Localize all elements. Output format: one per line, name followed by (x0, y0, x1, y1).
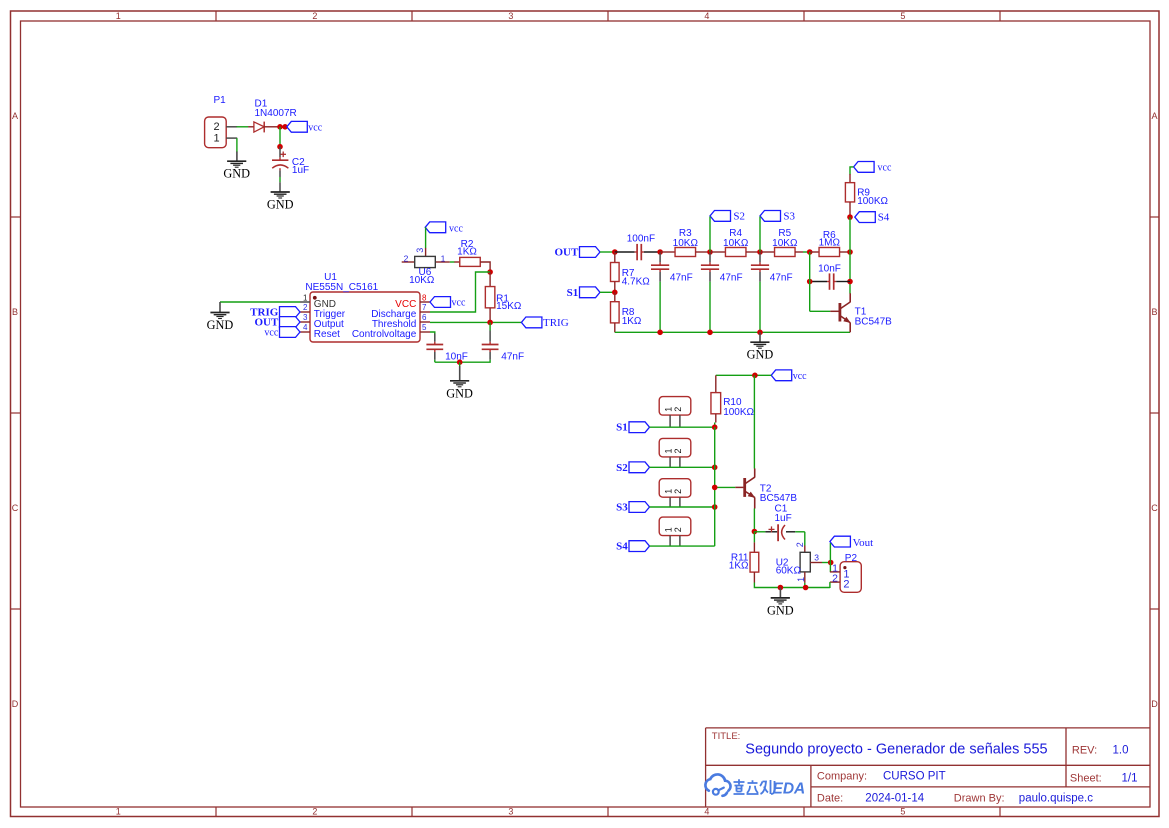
net flag S4 (855, 212, 890, 224)
svg-text:8: 8 (422, 293, 427, 302)
svg-text:4.7KΩ: 4.7KΩ (622, 277, 651, 288)
net flag S3 (760, 210, 796, 222)
svg-text:1: 1 (303, 293, 308, 302)
svg-text:10KΩ: 10KΩ (409, 275, 435, 286)
wire U1 pin1 to GND (220, 301, 300, 303)
svg-text:4: 4 (704, 807, 709, 817)
svg-text:vcc: vcc (793, 371, 807, 382)
capacitor C2 1uF polarized (272, 147, 309, 176)
svg-text:2: 2 (673, 407, 683, 412)
svg-text:B: B (1151, 307, 1157, 317)
diode D1 1N4007R (248, 99, 297, 133)
junction node R2/R1/Discharge (487, 269, 493, 275)
wire R11 top (753, 532, 755, 553)
wire S1 row (650, 426, 715, 428)
wire U2 pin1 to rail (804, 583, 806, 588)
net flag S1 at ladder (567, 287, 600, 299)
svg-text:S4: S4 (616, 541, 628, 553)
potentiometer U6 10K (402, 248, 450, 286)
resistor R9 100K (845, 174, 888, 217)
svg-text:3: 3 (303, 313, 308, 322)
resistor R11 1K (729, 552, 759, 582)
junction cap1 bottom (657, 330, 663, 336)
junction S3 row (712, 504, 718, 510)
svg-text:100nF: 100nF (627, 234, 655, 245)
junction node R5/R6 (807, 249, 813, 255)
capacitor 47nF third (751, 253, 793, 332)
switch SW1 (1-2) (659, 397, 691, 428)
wire S2 row (650, 466, 715, 468)
junction Vout node (828, 560, 834, 566)
svg-text:NE555N_C5161: NE555N_C5161 (305, 282, 378, 293)
svg-text:15KΩ: 15KΩ (496, 301, 522, 312)
svg-text:D: D (12, 699, 19, 709)
wire vcc rail lower (716, 374, 771, 376)
resistor R7 4.7K (611, 252, 651, 292)
svg-text:GND: GND (747, 348, 774, 362)
svg-text:10nF: 10nF (818, 263, 841, 274)
svg-text:A: A (12, 111, 18, 121)
wire C2 to GND (279, 170, 281, 192)
svg-text:1: 1 (663, 527, 673, 532)
svg-text:47nF: 47nF (770, 273, 793, 284)
junction node S1 (612, 290, 618, 296)
svg-text:CURSO PIT: CURSO PIT (883, 771, 946, 783)
capacitor 100nF (615, 234, 660, 261)
ground GND at P1 (223, 152, 250, 181)
resistor R6 1M (810, 230, 850, 257)
svg-text:vcc: vcc (264, 327, 278, 338)
svg-text:3: 3 (508, 11, 513, 21)
net flag S3 lower (616, 502, 649, 514)
svg-text:Reset: Reset (314, 329, 340, 340)
wire U6 pin1 to R2 (450, 261, 455, 263)
resistor R1 15K (485, 272, 522, 322)
svg-text:4: 4 (303, 323, 308, 332)
svg-text:B: B (12, 307, 18, 317)
wire node to P2 pin1 (829, 563, 831, 572)
svg-text:4: 4 (704, 11, 709, 21)
svg-text:10nF: 10nF (445, 351, 468, 362)
svg-text:S3: S3 (783, 210, 795, 222)
svg-text:GND: GND (223, 167, 250, 181)
wire S2 to node (709, 217, 711, 253)
svg-text:3: 3 (415, 248, 425, 253)
net flag TRIG at U1 pin2 (250, 307, 300, 319)
svg-text:1: 1 (116, 11, 121, 21)
connector P2 (830, 553, 861, 592)
svg-text:1: 1 (441, 253, 446, 263)
svg-text:paulo.quispe.c: paulo.quispe.c (1019, 793, 1093, 805)
svg-text:GND: GND (767, 603, 794, 617)
svg-text:Company:: Company: (817, 771, 867, 783)
wire C1 to U2 pin2 (804, 532, 806, 546)
junction node cap1 top (657, 249, 663, 255)
svg-text:P1: P1 (214, 95, 227, 106)
svg-text:Segundo proyecto - Generador d: Segundo proyecto - Generador de señales … (745, 742, 1047, 758)
wire OUT flag to node (600, 251, 615, 253)
svg-text:S1: S1 (616, 422, 628, 434)
wire S3 to node (759, 217, 761, 253)
svg-text:6: 6 (422, 313, 427, 322)
switch SW3 (1-2) (659, 479, 691, 507)
svg-text:vcc: vcc (449, 223, 463, 234)
power flag vcc lower (771, 370, 807, 382)
wire vcc flag to U6 pin3 (425, 227, 427, 248)
ground GND at ladder rail (747, 332, 774, 361)
svg-text:2: 2 (312, 807, 317, 817)
svg-text:2: 2 (404, 253, 409, 263)
wire S1 flag to node (600, 291, 615, 293)
svg-text:47nF: 47nF (501, 351, 524, 362)
junction cap2 bottom (707, 330, 713, 336)
svg-text:7: 7 (422, 303, 427, 312)
transistor T1 BC547B (840, 293, 892, 332)
capacitor 10nF at T1 (810, 263, 850, 290)
wire vcc flag to R9 (850, 167, 854, 175)
svg-text:Vout: Vout (853, 537, 874, 549)
power flag vcc at U1 pin8 (430, 297, 466, 309)
svg-text:1: 1 (663, 407, 673, 412)
svg-text:D: D (1151, 699, 1158, 709)
svg-text:1/1: 1/1 (1122, 773, 1138, 785)
op-amp U1 NE555N_C5161 (300, 272, 430, 342)
junction node TRIG/R1 (487, 320, 493, 326)
svg-text:1MΩ: 1MΩ (819, 238, 841, 249)
net flag Vout (830, 536, 873, 549)
svg-text:REV:: REV: (1072, 745, 1097, 757)
resistor R3 10K (660, 228, 710, 256)
ground GND under caps (446, 362, 473, 400)
capacitor 47nF first (651, 253, 693, 332)
svg-text:2: 2 (843, 579, 849, 591)
svg-text:2: 2 (673, 489, 683, 494)
svg-text:1KΩ: 1KΩ (729, 561, 749, 572)
svg-text:S1: S1 (567, 287, 579, 299)
svg-text:1KΩ: 1KΩ (457, 247, 477, 258)
svg-text:Date:: Date: (817, 793, 843, 805)
junction node R3/R4 (707, 249, 713, 255)
wire vcc node down to C2 (279, 127, 281, 147)
wire P1 pin2 to D1 anode (237, 126, 249, 128)
wire base row to T2 (715, 486, 736, 488)
wire R5/R6 node down to base (810, 252, 839, 311)
svg-text:2: 2 (312, 11, 317, 21)
wire Threshold pin6 to TRIG flag (430, 321, 521, 323)
svg-text:S3: S3 (616, 502, 628, 514)
svg-text:S2: S2 (616, 462, 628, 474)
connector P1 (205, 95, 238, 148)
wire P2 pin2 to rail (829, 582, 831, 588)
svg-text:P2: P2 (845, 553, 858, 564)
junction cap3 bottom GND (757, 330, 763, 336)
svg-text:vcc: vcc (878, 162, 892, 173)
wire R5 to node (803, 251, 810, 253)
junction S1 row (712, 424, 718, 430)
wire 10nF to ground rail (434, 352, 436, 360)
svg-text:2: 2 (673, 527, 683, 532)
net flag S4 lower (616, 541, 649, 553)
junction GND rail (778, 585, 784, 591)
junction base row (712, 485, 718, 491)
junction node OUT (612, 249, 618, 255)
ground GND left of U1 (207, 302, 234, 332)
capacitor 47nF under R1 (482, 342, 524, 363)
svg-text:C: C (12, 503, 19, 513)
svg-text:S2: S2 (733, 210, 745, 222)
ground rail wire of ladder (615, 331, 850, 333)
svg-text:5: 5 (900, 11, 905, 21)
capacitor 10nF under pin5 (426, 342, 467, 363)
junction at ground of caps (457, 359, 463, 365)
svg-text:47nF: 47nF (670, 273, 693, 284)
svg-text:vcc: vcc (308, 123, 322, 134)
svg-text:3: 3 (814, 553, 819, 563)
svg-text:GND: GND (207, 318, 234, 332)
svg-text:2: 2 (795, 542, 805, 547)
svg-text:1: 1 (116, 807, 121, 817)
power flag vcc at D1 (287, 121, 323, 133)
power flag vcc above R9 (854, 162, 892, 174)
resistor R4 10K (710, 228, 760, 256)
resistor R5 10K (760, 228, 803, 256)
logo JLCEDA (705, 774, 805, 797)
power flag vcc above U6 (425, 222, 463, 235)
net flag OUT at U1 pin3 (254, 317, 300, 329)
net flag TRIG right of R1 (521, 317, 568, 329)
svg-text:GND: GND (267, 198, 294, 212)
wire Vout flag down to node (829, 543, 831, 563)
resistor R10 100K (711, 375, 755, 427)
svg-text:1: 1 (663, 489, 673, 494)
junction U2 pin1 rail (803, 585, 809, 591)
wire T2 collector to vcc rail (753, 375, 755, 468)
transistor T2 BC547B (745, 469, 798, 532)
svg-text:Controlvoltage: Controlvoltage (352, 329, 417, 340)
svg-text:2: 2 (213, 121, 219, 133)
junction node R6/collector (847, 249, 853, 255)
net flag S2 (710, 210, 745, 222)
svg-text:S4: S4 (878, 212, 890, 224)
svg-text:10KΩ: 10KΩ (772, 238, 798, 249)
ground GND at C2 (271, 191, 290, 193)
svg-text:1uF: 1uF (775, 513, 792, 524)
svg-text:5: 5 (422, 323, 427, 332)
wire 47nF to ground rail (489, 352, 491, 360)
wire switch bus vertical (714, 427, 716, 546)
svg-text:2: 2 (673, 448, 683, 453)
switch SW2 (1-2) (659, 438, 691, 467)
junction node R4/R5 (757, 249, 763, 255)
svg-text:Drawn By:: Drawn By: (954, 793, 1005, 805)
net flag S2 lower (616, 462, 649, 474)
svg-text:10KΩ: 10KΩ (673, 238, 699, 249)
svg-text:10KΩ: 10KΩ (723, 238, 749, 249)
svg-text:1N4007R: 1N4007R (255, 108, 297, 119)
svg-text:60KΩ: 60KΩ (776, 565, 802, 576)
svg-text:2: 2 (832, 573, 838, 585)
svg-text:1.0: 1.0 (1113, 745, 1129, 757)
svg-text:1: 1 (213, 132, 219, 144)
svg-text:GND: GND (446, 386, 473, 400)
capacitor C1 1uF polarized (754, 504, 804, 542)
wire node to capacitor 47nF (489, 322, 491, 341)
capacitor 47nF second (701, 253, 743, 332)
wire P1 pin1 to GND (236, 138, 238, 152)
net flag OUT at ladder (554, 247, 600, 259)
svg-text:A: A (1151, 111, 1157, 121)
junction at C2 top (277, 144, 283, 150)
ground GND bottom (767, 588, 794, 618)
junction T2 emitter / C1 / R11 (752, 529, 758, 535)
wire S4 node down to R6 node and 10nF (849, 217, 851, 293)
junction S2 row (712, 465, 718, 471)
junction node 10nF left (807, 279, 813, 285)
junction node vcc at D1 cathode (277, 124, 283, 130)
svg-text:vcc: vcc (452, 297, 466, 308)
svg-text:Sheet:: Sheet: (1070, 773, 1102, 785)
wire S4 row (650, 545, 715, 547)
potentiometer U2 60K (776, 542, 822, 583)
svg-text:1KΩ: 1KΩ (622, 316, 642, 327)
svg-text:OUT: OUT (554, 247, 579, 259)
svg-text:100KΩ: 100KΩ (857, 196, 888, 207)
junction node 10nF right (847, 279, 853, 285)
title block (706, 728, 1150, 807)
svg-text:2024-01-14: 2024-01-14 (865, 793, 924, 805)
junction vcc rail / T2 collector (752, 373, 758, 379)
svg-text:BC547B: BC547B (855, 316, 893, 327)
svg-text:TITLE:: TITLE: (712, 731, 741, 742)
junction node S4/R9 (847, 214, 853, 220)
svg-text:100KΩ: 100KΩ (723, 407, 754, 418)
svg-text:1: 1 (663, 448, 673, 453)
wire bottom rail (754, 583, 830, 588)
svg-text:TRIG: TRIG (543, 317, 569, 329)
wire U2 wiper to Vout node (822, 562, 831, 564)
power flag vcc at U1 pin4 (264, 327, 300, 339)
resistor R8 1K (611, 292, 642, 332)
svg-text:1uF: 1uF (292, 165, 309, 176)
net flag S1 lower (616, 422, 649, 434)
svg-text:47nF: 47nF (720, 273, 743, 284)
wire Discharge pin7 to node (430, 272, 490, 312)
svg-text:2: 2 (303, 303, 308, 312)
svg-text:5: 5 (900, 807, 905, 817)
switch SW4 (1-2) (659, 517, 691, 546)
resistor R2 1K (454, 239, 490, 272)
svg-text:1: 1 (796, 577, 806, 582)
svg-text:EDA: EDA (773, 780, 806, 797)
svg-text:C: C (1151, 503, 1158, 513)
wire S3 row (650, 506, 715, 508)
svg-text:3: 3 (508, 807, 513, 817)
wire Controlvoltage pin5 to capacitor 10nF (430, 332, 435, 334)
